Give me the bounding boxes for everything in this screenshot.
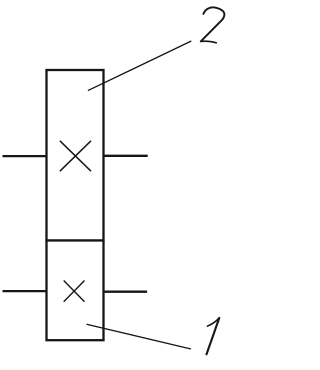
divider line between section 2 and section 1	[45, 239, 104, 241]
transformer body rectangle	[47, 70, 104, 340]
leader line to label 2	[88, 41, 191, 91]
label 1	[207, 318, 220, 354]
wire bottom-right lead	[104, 291, 147, 293]
leader line to label 1	[87, 324, 192, 349]
wire bottom-left lead	[3, 290, 47, 292]
label 2	[201, 7, 225, 42]
X symbol in lower section	[64, 281, 85, 302]
X symbol in upper section	[60, 141, 91, 171]
wire top-left lead	[3, 155, 47, 157]
wire top-right lead	[104, 155, 148, 157]
